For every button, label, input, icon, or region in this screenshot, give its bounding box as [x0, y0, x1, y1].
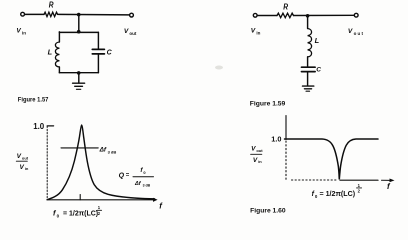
capacitor C plate bottom	[302, 71, 316, 73]
wire tank top rail	[59, 31, 98, 33]
baseline solid segment	[340, 179, 378, 181]
y axis dotted lower part	[285, 141, 287, 180]
baseline arrow	[382, 179, 391, 181]
svg-text:1.0: 1.0	[271, 135, 281, 144]
resonance curve	[48, 125, 155, 199]
svg-text:= 1/2π(LC): = 1/2π(LC)	[320, 190, 356, 198]
Q equation	[119, 167, 154, 188]
wire L to C	[307, 57, 309, 67]
svg-text:3 dB: 3 dB	[108, 150, 117, 155]
resistor R	[44, 12, 58, 16]
y axis solid upper part	[285, 116, 287, 140]
x axis	[47, 199, 154, 201]
svg-text:in: in	[25, 166, 29, 171]
svg-text:out: out	[354, 31, 365, 36]
capacitor C plate bottom	[92, 53, 104, 55]
svg-text:in: in	[256, 31, 260, 36]
wire resistor to output	[294, 14, 355, 16]
notch response curve	[285, 139, 379, 179]
svg-text:= 1/2π(LC): = 1/2π(LC)	[63, 211, 98, 218]
svg-text:L: L	[48, 47, 53, 56]
ground	[73, 83, 85, 89]
label Vout	[124, 28, 137, 36]
svg-text:Δf: Δf	[134, 181, 142, 187]
output terminal (open circle)	[354, 13, 358, 17]
x axis arrowhead	[153, 198, 158, 202]
svg-text:Δf: Δf	[99, 146, 107, 153]
svg-text:V: V	[17, 153, 22, 160]
node: junction dot	[306, 14, 310, 18]
f0 formula	[312, 183, 362, 199]
svg-text:in: in	[22, 31, 26, 36]
svg-text:in: in	[258, 159, 262, 164]
wire resistor to output	[58, 13, 129, 16]
capacitor C plate top	[302, 66, 316, 68]
svg-text:=: =	[126, 173, 130, 179]
wire right branch lower	[97, 54, 99, 73]
capacitor C plate top	[92, 48, 104, 50]
svg-text:Figure 1.59: Figure 1.59	[250, 100, 286, 107]
svg-text:V: V	[16, 28, 21, 35]
label Vin	[251, 28, 261, 36]
y axis label Vout/Vin	[251, 146, 264, 165]
wire left branch upper	[58, 32, 60, 42]
3dB width line	[61, 147, 98, 149]
wire to ground	[78, 73, 80, 83]
output terminal (open circle)	[130, 13, 134, 17]
label Vin	[16, 28, 26, 36]
y axis label Vout/Vin	[16, 153, 29, 171]
svg-text:C: C	[316, 67, 321, 74]
svg-text:V: V	[348, 28, 353, 35]
tick f0 on axis	[79, 195, 81, 200]
scan smudge (decorative)	[215, 66, 223, 70]
f0 formula	[53, 205, 102, 218]
svg-text:V: V	[20, 164, 25, 171]
svg-text:V: V	[253, 157, 258, 164]
svg-text:R: R	[283, 2, 288, 11]
node: junction dot on top wire	[77, 13, 81, 17]
svg-text:Figure 1.57: Figure 1.57	[18, 97, 49, 104]
wire tank bottom rail	[59, 72, 98, 74]
baseline dotted segment	[292, 179, 337, 181]
svg-text:V: V	[251, 28, 256, 35]
node: junction dot tank top	[77, 30, 81, 34]
svg-text:R: R	[49, 1, 54, 10]
wire input to resistor	[257, 15, 277, 17]
wire C to ground	[307, 72, 309, 86]
inductor L (coil, bumps right)	[308, 29, 312, 57]
svg-text:out: out	[256, 148, 263, 153]
tick 1.0	[47, 125, 53, 127]
wire input to resistor	[25, 13, 44, 15]
wire right branch upper	[97, 32, 99, 49]
node: junction dot tank bottom	[77, 71, 81, 75]
svg-text:3 dB: 3 dB	[143, 184, 151, 188]
wire left branch lower	[58, 67, 60, 73]
svg-text:L: L	[315, 36, 320, 45]
ground	[303, 86, 314, 91]
label Vout	[348, 28, 364, 36]
svg-text:V: V	[251, 146, 256, 153]
svg-text:out: out	[129, 31, 136, 36]
wire junction down to L	[307, 16, 309, 29]
svg-text:out: out	[22, 155, 29, 160]
inductor L (coil, bumps left)	[55, 42, 59, 67]
svg-text:Q: Q	[119, 173, 125, 180]
svg-text:Figure 1.60: Figure 1.60	[250, 207, 286, 214]
svg-text:V: V	[124, 28, 129, 35]
input terminal (open circle)	[21, 12, 25, 16]
svg-text:1.0: 1.0	[33, 121, 44, 131]
input terminal (open circle)	[253, 13, 257, 17]
label delta-f 3dB	[99, 146, 117, 154]
resistor R	[277, 13, 293, 18]
y axis (dotted)	[46, 126, 48, 200]
wire junction down to tank	[78, 15, 80, 33]
